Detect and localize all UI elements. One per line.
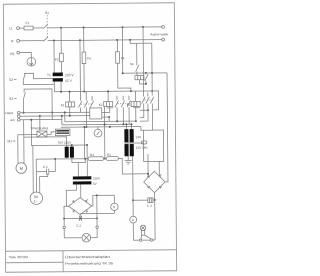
contact group 3 arms bbox=[142, 97, 146, 104]
svg-text:24V: 24V bbox=[136, 135, 142, 139]
terminal Hand 2 bbox=[17, 115, 20, 118]
svg-text:70V 220V: 70V 220V bbox=[58, 141, 73, 145]
svg-text:PE: PE bbox=[10, 52, 15, 56]
title block left middle line bbox=[6, 261, 63, 264]
contact group 2 stubs bbox=[116, 96, 118, 100]
L1 bus wire bbox=[48, 26, 162, 29]
wire S3 top to x52 bbox=[24, 89, 52, 120]
svg-text:C 2: C 2 bbox=[76, 224, 81, 228]
T4 mid tap bbox=[124, 142, 134, 144]
wire T1 sec left down bbox=[53, 82, 55, 92]
wire T2 right bottom bbox=[72, 158, 85, 163]
wire to T3 right bbox=[86, 144, 88, 146]
wire motor right hook bbox=[40, 173, 48, 192]
title block divider bbox=[62, 251, 64, 272]
svg-text:K1: K1 bbox=[61, 103, 65, 107]
border frame bbox=[3, 3, 176, 272]
node bridge feed bbox=[147, 173, 149, 175]
wire fuse to switch S1 pole a bbox=[33, 27, 43, 29]
wire K2 bottom bbox=[103, 107, 105, 158]
meter A bbox=[132, 200, 134, 216]
svg-text:Hand: Hand bbox=[5, 111, 13, 115]
wire bridge bottom stub bbox=[79, 215, 81, 219]
svg-text:S3: S3 bbox=[9, 97, 13, 101]
transformer T2 left bar bbox=[65, 147, 69, 158]
R bus wire bbox=[48, 39, 162, 42]
heater box bbox=[37, 131, 47, 137]
svg-text:Automatik: Automatik bbox=[150, 32, 169, 36]
wire K2 feed bbox=[107, 91, 109, 101]
relay K4 coil box bbox=[135, 76, 144, 80]
long right vertical to bridge bbox=[164, 73, 168, 182]
svg-text:Thalau 08071991: Thalau 08071991 bbox=[9, 255, 29, 259]
svg-text:A: A bbox=[132, 218, 135, 222]
bridge rectifier Gl2 bbox=[144, 171, 166, 193]
svg-text:L1: L1 bbox=[9, 26, 13, 30]
K2 coil value mark bbox=[107, 106, 114, 109]
heater feed from row2 bbox=[39, 115, 41, 117]
wire T4 feed right bbox=[130, 124, 132, 129]
wire S3 riser bbox=[23, 104, 25, 113]
node R-S4 bbox=[129, 39, 131, 41]
capsule in box bbox=[141, 141, 147, 144]
pilot lamp bbox=[140, 225, 145, 230]
switch S3 contact bbox=[23, 92, 25, 99]
transformer T4 left bar bbox=[124, 129, 128, 156]
svg-text:T1: T1 bbox=[47, 73, 51, 77]
wire S4 feeder bbox=[130, 40, 152, 44]
wire box to bridge left bbox=[147, 154, 149, 177]
wire 5V right to bridge top bbox=[80, 184, 82, 197]
svg-text:1~: 1~ bbox=[34, 199, 38, 203]
row wire hand1 bbox=[20, 111, 90, 114]
svg-text:12V 18V: 12V 18V bbox=[136, 146, 149, 150]
svg-text:R1: R1 bbox=[90, 153, 94, 157]
svg-text:S4: S4 bbox=[130, 62, 134, 66]
node bus x84 bbox=[83, 91, 85, 93]
wire F4 drop bbox=[116, 40, 118, 52]
fuse F3 bbox=[82, 52, 86, 64]
node C3 right bbox=[154, 199, 156, 201]
projection lamp bbox=[64, 237, 82, 239]
row wire 121.5 bbox=[65, 120, 136, 123]
switch S4 contact bbox=[136, 43, 138, 65]
contact group 2 arms bbox=[115, 101, 119, 108]
terminal Automatik upper bbox=[162, 25, 165, 28]
fuse F4 bbox=[116, 52, 120, 64]
device box bbox=[90, 108, 102, 119]
wire K3 bottom bbox=[135, 106, 137, 121]
wire S2 top to T1 42V left bbox=[24, 73, 53, 79]
node R-F4 bbox=[116, 39, 118, 41]
svg-text:K3: K3 bbox=[127, 103, 131, 107]
wire box to bridge right bbox=[158, 161, 160, 176]
node bus x61.5 bbox=[60, 91, 62, 93]
node L1-x144 bbox=[142, 26, 144, 28]
wire T2 secondary feed row bbox=[31, 119, 87, 145]
svg-text:F2: F2 bbox=[55, 58, 59, 62]
transformer T1 secondary bar bbox=[53, 78, 63, 81]
ground symbol bbox=[127, 156, 129, 160]
wire K4 to y84 bbox=[138, 80, 140, 84]
small motor B1 bbox=[16, 163, 27, 174]
svg-text:R: R bbox=[11, 39, 14, 43]
svg-text:F3: F3 bbox=[87, 56, 91, 60]
svg-text:220V: 220V bbox=[93, 177, 101, 181]
secondary bus 42V bbox=[54, 90, 151, 93]
node S3-hand row bbox=[51, 112, 53, 114]
row wire 124.6 bbox=[62, 123, 131, 126]
contact group 3 drops bbox=[143, 104, 145, 111]
wire y84 link bbox=[140, 83, 146, 85]
wire 5V left staircase bbox=[66, 185, 76, 207]
terminal Automatik lower bbox=[162, 38, 165, 41]
wire motor left bbox=[32, 145, 34, 192]
device box right bbox=[143, 130, 163, 161]
svg-text:Übersichtsschaltplan: Übersichtsschaltplan bbox=[65, 255, 110, 259]
contact group 1 arms bbox=[78, 101, 82, 108]
wire T2 left bottom bbox=[66, 158, 68, 159]
wire R to switch S1 pole b bbox=[20, 40, 44, 42]
transformer T3 primary bar bbox=[73, 176, 92, 179]
wire F2 to T1 bbox=[60, 62, 62, 73]
transformer T2 right bar bbox=[70, 147, 74, 158]
meter P1 bbox=[94, 129, 102, 137]
wire T3 feed left bbox=[77, 163, 79, 177]
wire F4 to bus bbox=[118, 63, 131, 91]
rectifier block striped bbox=[55, 129, 70, 136]
svg-text:Projektorsteuerung TK 35: Projektorsteuerung TK 35 bbox=[65, 261, 113, 265]
wire R2 to bridge wire bbox=[118, 158, 148, 174]
bridge rectifier Gl1 bbox=[69, 197, 92, 214]
wire L1 x144 drop bbox=[142, 27, 144, 40]
terminal Hand 3 bbox=[18, 119, 21, 122]
row wire 127 bbox=[61, 126, 141, 129]
wire F3 drop bbox=[83, 28, 85, 52]
node bus x152 bbox=[151, 90, 153, 92]
wire S2 bottom to T1 sec left bbox=[23, 83, 54, 85]
right hook wires bbox=[152, 91, 158, 110]
earth symbol bbox=[27, 57, 36, 66]
wire L1 to fuse bbox=[19, 27, 24, 29]
capacitor C2 plates bbox=[79, 216, 81, 221]
svg-text:V: V bbox=[113, 205, 116, 209]
svg-text:S1: S1 bbox=[45, 11, 49, 15]
wire R to T1 left bbox=[53, 41, 55, 73]
K3 coil value mark bbox=[133, 106, 140, 109]
wire motor mid bbox=[35, 159, 37, 192]
contact group 1 drops bbox=[80, 108, 82, 113]
contact group 1 stubs bbox=[85, 92, 87, 101]
wire bridge right up bbox=[92, 195, 93, 206]
capacitor C2 wire bbox=[64, 217, 79, 219]
contact group 3 stubs bbox=[142, 40, 144, 97]
small motor lead b bbox=[23, 120, 25, 163]
left feeds to rows bbox=[64, 112, 66, 121]
wire y73 link bbox=[123, 72, 167, 74]
row wire hand3 bbox=[20, 118, 62, 120]
node R-80 bbox=[79, 39, 81, 41]
wire T4 feed left bbox=[125, 124, 127, 129]
contact at x146 bbox=[145, 73, 147, 74]
wire T2 primary feed bbox=[24, 137, 67, 147]
capacitor C3 bbox=[133, 199, 148, 201]
contact group 2 drops bbox=[116, 107, 118, 121]
wire T1 sec right down bbox=[60, 82, 62, 92]
small motor lead a bbox=[17, 135, 19, 163]
switch S2 contact bbox=[23, 73, 25, 80]
svg-text:42 V: 42 V bbox=[65, 79, 73, 83]
node L1-F2 bbox=[60, 27, 62, 29]
node L1-x123 bbox=[122, 26, 124, 28]
wire right riser bbox=[151, 43, 153, 95]
meter V bbox=[113, 195, 115, 203]
switch S1 dashed link bbox=[46, 15, 48, 38]
box outputs bbox=[102, 107, 110, 113]
connector circles bbox=[139, 239, 141, 241]
switch S1 pole a bbox=[43, 24, 48, 28]
row wire hand2 bbox=[20, 115, 90, 118]
wire F2 drop bbox=[60, 28, 62, 53]
wire heater right up to block bbox=[47, 132, 56, 135]
transformer T4 right bar bbox=[130, 129, 134, 156]
title block top line bbox=[5, 250, 176, 251]
node C3 left bbox=[132, 199, 134, 201]
svg-text:ein: ein bbox=[10, 118, 15, 122]
wire C1 top bbox=[36, 158, 88, 160]
wire K1 bottom bbox=[69, 107, 71, 116]
motor M1 bbox=[30, 192, 43, 205]
svg-text:R2: R2 bbox=[107, 153, 111, 157]
node L1-F3 bbox=[83, 27, 85, 29]
wire heater left bbox=[18, 134, 37, 136]
wire contact col 80 drop bbox=[79, 40, 82, 100]
svg-text:Heizung: Heizung bbox=[31, 126, 48, 130]
svg-text:5V: 5V bbox=[93, 182, 98, 186]
wire lamp top rail bbox=[93, 194, 114, 196]
wire L1 x123 drop bbox=[121, 27, 123, 73]
svg-text:220 V: 220 V bbox=[65, 73, 74, 77]
wire K3 feed bbox=[135, 91, 137, 101]
transformer T3 secondary bar bbox=[73, 181, 92, 184]
svg-text:K2: K2 bbox=[99, 103, 103, 107]
wire bridge bottom bbox=[153, 193, 155, 200]
lamp left rail bbox=[64, 206, 69, 226]
terminal Hand 1 bbox=[17, 112, 20, 115]
wire meter bottom rail bbox=[80, 212, 114, 214]
svg-text:C 3: C 3 bbox=[147, 204, 152, 208]
switch S1 pole b bbox=[43, 37, 48, 41]
node R-T1 bbox=[53, 40, 55, 42]
svg-text:S2: S2 bbox=[9, 78, 13, 82]
node bus x131 bbox=[130, 90, 132, 92]
svg-text:C 1: C 1 bbox=[43, 165, 48, 169]
transformer T1 primary bar bbox=[53, 73, 63, 77]
vertical feed x84 bbox=[83, 127, 85, 159]
svg-text:F1: F1 bbox=[25, 21, 29, 25]
wire PE bbox=[20, 53, 32, 58]
wire K1 feed bbox=[69, 92, 71, 102]
svg-text:M1: M1 bbox=[8, 139, 13, 143]
wire T4 sec down bbox=[132, 156, 134, 200]
node R1-R2 bbox=[104, 158, 106, 160]
svg-text:M: M bbox=[20, 166, 23, 171]
wire bottom loop bbox=[133, 239, 139, 241]
lamp right rail bbox=[96, 195, 98, 225]
